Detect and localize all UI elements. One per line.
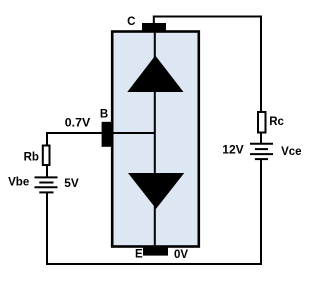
terminal E bbox=[143, 247, 168, 256]
svg-text:Vce: Vce bbox=[281, 146, 301, 158]
svg-text:0.7V: 0.7V bbox=[65, 118, 91, 130]
terminal C bbox=[142, 23, 166, 32]
svg-text:12V: 12V bbox=[222, 145, 244, 157]
wire: collector lead C to top-right corner down to Rc bbox=[154, 17, 261, 113]
diode D2 emitter arrow (down) bbox=[128, 173, 184, 209]
wire: Vbe down, bottom rail, up right side to Vce bbox=[47, 160, 261, 264]
battery Vce bbox=[250, 144, 273, 159]
wire: Rb to Vbe battery bbox=[46, 166, 48, 178]
svg-text:Vbe: Vbe bbox=[8, 177, 29, 189]
svg-text:E: E bbox=[135, 249, 143, 261]
svg-text:0V: 0V bbox=[174, 249, 188, 261]
terminal B bbox=[102, 122, 112, 147]
resistor Rc bbox=[258, 112, 266, 133]
wire: center vertical line C to E inside box bbox=[154, 31, 156, 250]
svg-text:B: B bbox=[100, 109, 108, 121]
svg-text:Rc: Rc bbox=[269, 116, 284, 128]
svg-text:5V: 5V bbox=[64, 178, 79, 190]
diode D1 collector arrow (up) bbox=[127, 56, 183, 93]
resistor Rb bbox=[43, 146, 50, 166]
battery Vbe bbox=[35, 177, 58, 192]
svg-text:Rb: Rb bbox=[24, 151, 39, 163]
wire: base branch down to Rb bbox=[46, 132, 48, 146]
transistor model box U1 bbox=[112, 32, 199, 247]
wire: base wire 0.7V node to center bbox=[46, 132, 155, 134]
svg-text:C: C bbox=[127, 16, 135, 28]
wire: Rc to Vce battery bbox=[260, 133, 262, 145]
